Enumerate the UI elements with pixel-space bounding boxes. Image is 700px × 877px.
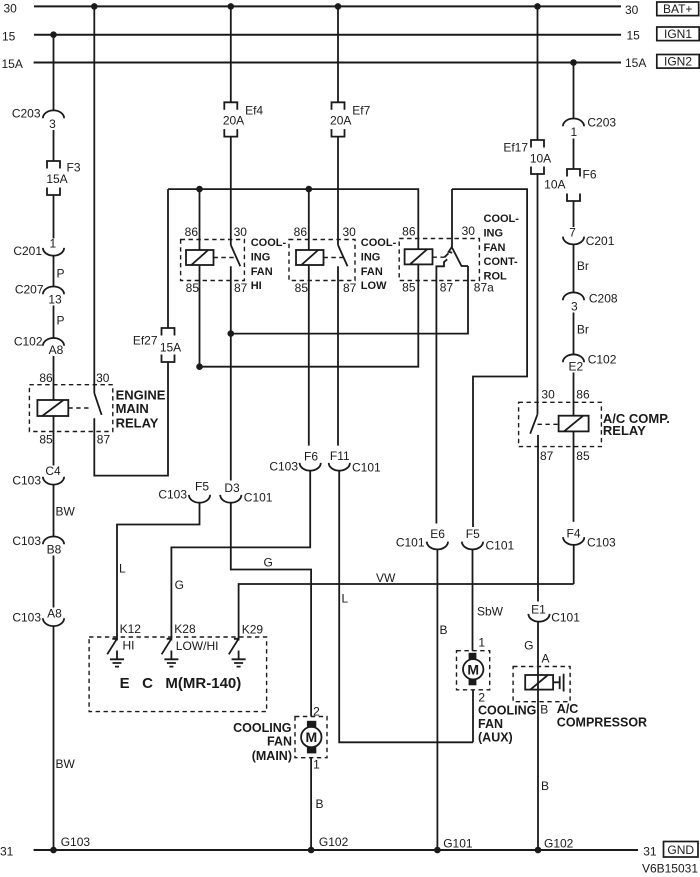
svg-text:F11: F11 <box>330 449 350 463</box>
svg-text:C103: C103 <box>12 534 41 548</box>
svg-text:L: L <box>342 592 349 606</box>
svg-text:G103: G103 <box>61 835 91 849</box>
svg-text:2: 2 <box>478 691 485 705</box>
svg-text:COOL-: COOL- <box>484 213 520 225</box>
svg-text:K28: K28 <box>174 622 196 636</box>
svg-text:P: P <box>57 267 65 281</box>
svg-text:F3: F3 <box>67 161 81 175</box>
svg-text:E C M(MR-140): E C M(MR-140) <box>120 675 242 692</box>
svg-text:C101: C101 <box>396 536 425 550</box>
svg-text:86: 86 <box>576 388 590 402</box>
svg-text:G: G <box>524 639 533 653</box>
svg-text:Br: Br <box>577 323 589 337</box>
svg-text:30: 30 <box>462 224 476 238</box>
svg-text:Ef17: Ef17 <box>503 141 528 155</box>
svg-text:G: G <box>175 578 184 592</box>
svg-text:2: 2 <box>313 704 320 718</box>
svg-text:F6: F6 <box>304 450 318 464</box>
svg-text:1: 1 <box>313 758 320 772</box>
svg-text:FAN: FAN <box>251 266 273 278</box>
svg-text:E1: E1 <box>531 603 546 617</box>
svg-text:COMPRESSOR: COMPRESSOR <box>557 716 647 730</box>
svg-text:85: 85 <box>295 281 309 295</box>
svg-text:(MAIN): (MAIN) <box>252 749 292 763</box>
svg-text:G102: G102 <box>319 835 349 849</box>
svg-text:85: 85 <box>39 433 53 447</box>
svg-text:C102: C102 <box>14 335 43 349</box>
svg-text:FAN: FAN <box>484 242 506 254</box>
svg-text:C203: C203 <box>587 116 616 130</box>
svg-text:GND: GND <box>667 843 694 857</box>
svg-text:LOW: LOW <box>361 280 387 292</box>
svg-text:C103: C103 <box>158 488 187 502</box>
svg-text:COOLING: COOLING <box>233 721 291 735</box>
svg-text:3: 3 <box>49 117 56 131</box>
svg-text:30: 30 <box>541 388 555 402</box>
svg-text:10A: 10A <box>530 152 551 166</box>
svg-text:B: B <box>316 797 324 811</box>
svg-text:B: B <box>540 702 548 716</box>
svg-text:87: 87 <box>343 281 357 295</box>
svg-text:13: 13 <box>48 292 62 306</box>
svg-text:86: 86 <box>294 225 308 239</box>
svg-text:31: 31 <box>643 845 657 859</box>
svg-text:B8: B8 <box>47 543 62 557</box>
svg-text:30: 30 <box>343 225 357 239</box>
svg-text:87: 87 <box>440 281 454 295</box>
svg-text:C103: C103 <box>12 474 41 488</box>
svg-text:A8: A8 <box>49 343 64 357</box>
svg-text:87: 87 <box>540 449 554 463</box>
svg-text:7: 7 <box>569 226 576 240</box>
svg-text:10A: 10A <box>544 178 565 192</box>
svg-text:P: P <box>57 314 65 328</box>
svg-text:30: 30 <box>625 3 639 17</box>
svg-text:BW: BW <box>56 757 76 771</box>
svg-text:ROL: ROL <box>484 270 508 282</box>
svg-text:87a: 87a <box>474 281 494 295</box>
svg-text:20A: 20A <box>330 114 351 128</box>
svg-text:IGN1: IGN1 <box>664 27 692 41</box>
svg-text:C201: C201 <box>586 234 615 248</box>
svg-text:F4: F4 <box>566 527 580 541</box>
svg-text:F5: F5 <box>466 527 480 541</box>
svg-text:COOL-: COOL- <box>361 237 397 249</box>
svg-text:1: 1 <box>570 125 577 139</box>
svg-text:Br: Br <box>577 259 589 273</box>
svg-text:COOLING: COOLING <box>478 703 536 717</box>
svg-text:L: L <box>119 562 126 576</box>
svg-text:C207: C207 <box>15 283 44 297</box>
svg-text:G102: G102 <box>544 837 574 851</box>
svg-text:COOL-: COOL- <box>251 237 287 249</box>
svg-text:Ef4: Ef4 <box>245 104 263 118</box>
svg-text:15A: 15A <box>46 172 67 186</box>
svg-text:A: A <box>542 652 550 666</box>
svg-text:VW: VW <box>376 571 396 585</box>
svg-text:1: 1 <box>478 636 485 650</box>
svg-text:1: 1 <box>49 236 56 250</box>
svg-text:C101: C101 <box>486 539 515 553</box>
svg-text:85: 85 <box>186 281 200 295</box>
svg-text:BW: BW <box>56 505 76 519</box>
svg-text:85: 85 <box>402 281 416 295</box>
svg-text:C4: C4 <box>45 464 61 478</box>
svg-text:(AUX): (AUX) <box>478 730 513 744</box>
svg-text:C102: C102 <box>588 353 617 367</box>
svg-text:86: 86 <box>185 225 199 239</box>
svg-text:31: 31 <box>0 845 14 859</box>
svg-text:M: M <box>305 729 317 745</box>
svg-text:C208: C208 <box>589 292 618 306</box>
svg-text:15A: 15A <box>625 56 646 70</box>
svg-text:Ef7: Ef7 <box>352 104 370 118</box>
svg-text:85: 85 <box>576 449 590 463</box>
svg-text:15A: 15A <box>160 341 181 355</box>
svg-text:A8: A8 <box>47 606 62 620</box>
svg-text:15: 15 <box>627 28 641 42</box>
svg-text:15A: 15A <box>2 57 23 71</box>
svg-text:HI: HI <box>251 280 262 292</box>
svg-text:A/C: A/C <box>557 702 579 716</box>
svg-text:B: B <box>440 623 448 637</box>
svg-text:87: 87 <box>97 433 111 447</box>
svg-text:E6: E6 <box>430 527 445 541</box>
svg-text:RELAY: RELAY <box>603 423 646 438</box>
svg-text:V6B15031: V6B15031 <box>642 862 698 876</box>
svg-text:C101: C101 <box>352 461 381 475</box>
svg-text:Ef27: Ef27 <box>133 334 158 348</box>
svg-text:K29: K29 <box>242 622 264 636</box>
svg-text:C103: C103 <box>587 536 616 550</box>
svg-text:C201: C201 <box>13 244 42 258</box>
svg-text:ING: ING <box>484 228 504 240</box>
svg-text:SbW: SbW <box>477 605 504 619</box>
svg-text:C103: C103 <box>12 611 41 625</box>
svg-text:C101: C101 <box>244 491 273 505</box>
svg-text:ING: ING <box>361 252 381 264</box>
svg-text:C103: C103 <box>269 460 298 474</box>
svg-text:F5: F5 <box>195 480 209 494</box>
svg-text:30: 30 <box>4 2 18 16</box>
svg-text:86: 86 <box>402 225 416 239</box>
svg-text:C101: C101 <box>551 611 580 625</box>
svg-text:20A: 20A <box>223 114 244 128</box>
svg-text:C203: C203 <box>12 107 41 121</box>
svg-text:FAN: FAN <box>478 717 503 731</box>
svg-text:3: 3 <box>571 300 578 314</box>
svg-text:G: G <box>264 556 273 570</box>
svg-text:30: 30 <box>96 371 110 385</box>
svg-text:LOW/HI: LOW/HI <box>176 639 219 653</box>
svg-text:F6: F6 <box>583 168 597 182</box>
svg-text:MAIN: MAIN <box>116 401 149 416</box>
svg-text:HI: HI <box>123 638 135 652</box>
svg-text:RELAY: RELAY <box>116 415 159 430</box>
svg-text:FAN: FAN <box>267 735 292 749</box>
svg-text:86: 86 <box>39 371 53 385</box>
svg-text:M: M <box>467 661 479 677</box>
svg-text:30: 30 <box>234 225 248 239</box>
svg-text:CONT-: CONT- <box>484 256 519 268</box>
svg-text:FAN: FAN <box>361 266 383 278</box>
svg-text:ING: ING <box>251 252 271 264</box>
svg-text:E2: E2 <box>568 359 583 373</box>
svg-text:B: B <box>541 779 549 793</box>
svg-text:K12: K12 <box>120 622 142 636</box>
svg-text:BAT+: BAT+ <box>663 2 692 16</box>
svg-text:87: 87 <box>234 281 248 295</box>
svg-text:IGN2: IGN2 <box>664 55 692 69</box>
svg-text:G101: G101 <box>443 837 473 851</box>
svg-text:D3: D3 <box>224 481 240 495</box>
svg-text:15: 15 <box>2 29 16 43</box>
